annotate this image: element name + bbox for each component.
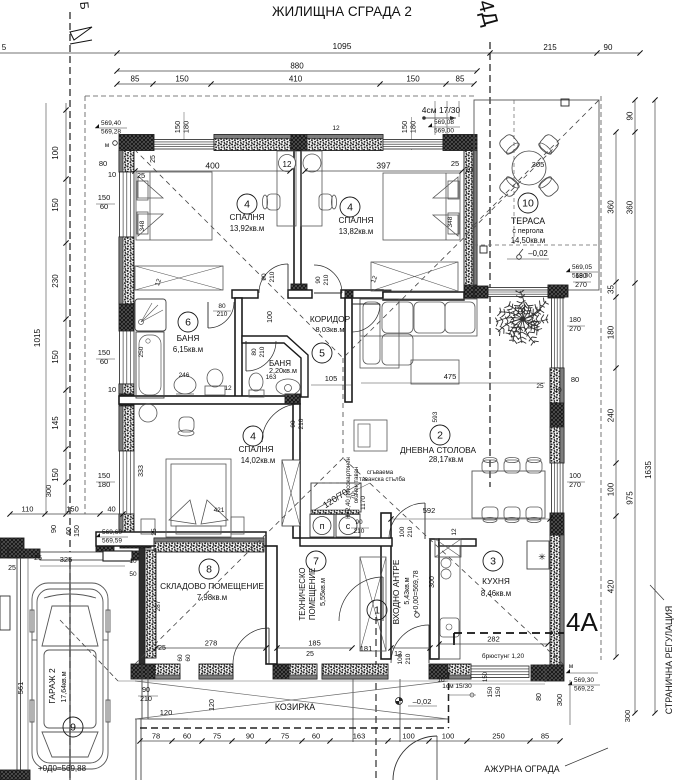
svg-text:150: 150 xyxy=(98,471,111,480)
window 180/270 right xyxy=(552,298,564,368)
corner jog SW b xyxy=(120,532,151,548)
dim 1095 line xyxy=(0,52,640,54)
room number 2 xyxy=(430,425,450,445)
svg-text:4А: 4А xyxy=(566,607,598,637)
bottom wall xyxy=(289,664,317,679)
block S of bedroom wall xyxy=(291,284,307,297)
svg-text:2,20кв.м: 2,20кв.м xyxy=(269,366,297,375)
svg-text:м: м xyxy=(569,663,574,670)
column xyxy=(291,135,307,151)
svg-text:ГАРАЖ 2: ГАРАЖ 2 xyxy=(47,668,57,704)
svg-text:270: 270 xyxy=(575,282,587,289)
svg-text:150: 150 xyxy=(51,468,60,482)
svg-text:210: 210 xyxy=(259,346,266,357)
svg-text:110: 110 xyxy=(22,505,34,514)
bed bedroom1 xyxy=(136,172,212,240)
wardrobe X bedroom3 wall xyxy=(282,460,300,526)
regulation line 4Д dashed xyxy=(489,42,491,487)
door tech xyxy=(382,577,384,621)
svg-text:25: 25 xyxy=(306,651,314,658)
canopy left edge xyxy=(135,719,137,780)
corridor W wall xyxy=(345,298,352,402)
door bath6 xyxy=(207,302,209,328)
svg-text:10: 10 xyxy=(522,198,534,210)
canopy right xyxy=(544,664,546,682)
room number 8 xyxy=(199,559,219,579)
desks bedrooms xyxy=(277,151,296,226)
tech appliances п с xyxy=(310,514,334,537)
svg-text:КОЗИРКА: КОЗИРКА xyxy=(275,702,315,712)
svg-text:3: 3 xyxy=(490,556,496,568)
svg-text:80: 80 xyxy=(99,159,107,168)
svg-text:ТЕРАСА: ТЕРАСА xyxy=(511,216,545,226)
svg-text:180: 180 xyxy=(575,273,587,280)
svg-text:25: 25 xyxy=(150,155,157,163)
wall anchor marker xyxy=(480,246,487,253)
door bedroom1 xyxy=(287,264,289,293)
dim line xyxy=(634,100,636,713)
svg-text:сгъваема: сгъваема xyxy=(367,470,394,476)
top wall xyxy=(214,135,291,151)
svg-text:246: 246 xyxy=(179,372,190,379)
svg-text:100: 100 xyxy=(442,732,455,741)
garage door band xyxy=(40,552,103,560)
svg-text:210: 210 xyxy=(354,528,365,535)
window 150/60 left xyxy=(120,172,135,237)
svg-text:75: 75 xyxy=(281,732,289,741)
roof hip SW xyxy=(135,458,343,664)
svg-text:ВХОДНО АНТРЕ: ВХОДНО АНТРЕ xyxy=(391,559,401,624)
svg-text:287: 287 xyxy=(155,600,162,611)
svg-text:90: 90 xyxy=(142,687,150,694)
svg-text:4: 4 xyxy=(347,202,353,214)
canopy X2 xyxy=(135,681,448,719)
svg-text:СПАЛНЯ: СПАЛНЯ xyxy=(338,215,373,225)
block xyxy=(464,285,477,298)
blk xyxy=(345,290,353,298)
bottom wall xyxy=(155,664,180,679)
window bedroom2 N xyxy=(383,140,443,150)
door bedroom3 xyxy=(299,404,301,442)
svg-text:10: 10 xyxy=(108,170,116,179)
left wall pier xyxy=(119,384,134,394)
svg-text:150: 150 xyxy=(487,686,494,697)
pergola post xyxy=(561,99,569,106)
svg-text:325: 325 xyxy=(60,555,73,564)
storage N wall xyxy=(96,532,266,546)
svg-text:10: 10 xyxy=(554,387,562,394)
left wall xyxy=(119,406,134,451)
door corridor-living xyxy=(352,303,380,305)
svg-text:60: 60 xyxy=(177,654,184,662)
svg-text:100: 100 xyxy=(607,482,616,496)
svg-text:14,02кв.м: 14,02кв.м xyxy=(241,456,276,465)
svg-text:35: 35 xyxy=(607,285,616,294)
corner SE xyxy=(531,665,564,681)
svg-text:80: 80 xyxy=(218,303,226,310)
dim line xyxy=(615,132,617,657)
bottom block xyxy=(273,664,289,679)
window 100/270 right xyxy=(552,463,564,513)
chair bedroom3 xyxy=(178,417,194,436)
dim line xyxy=(10,513,123,515)
svg-text:брюстунг 1,20: брюстунг 1,20 xyxy=(482,652,525,660)
svg-text:10: 10 xyxy=(437,677,445,684)
toilet bath6 xyxy=(205,369,225,395)
svg-text:400: 400 xyxy=(205,161,219,171)
svg-text:150: 150 xyxy=(66,505,79,514)
svg-text:–0,02: –0,02 xyxy=(528,249,548,258)
svg-text:569,59: 569,59 xyxy=(102,538,122,545)
entr-tech N wall xyxy=(300,538,392,546)
kitchen counter xyxy=(439,546,460,659)
svg-text:270: 270 xyxy=(569,482,581,489)
svg-text:БАНЯ: БАНЯ xyxy=(177,333,200,343)
blk corridor SW xyxy=(285,394,300,404)
room number 7 xyxy=(306,551,326,571)
svg-text:1170: 1170 xyxy=(360,496,367,510)
right wall xyxy=(550,535,564,665)
svg-text:90: 90 xyxy=(626,111,635,120)
svg-text:100: 100 xyxy=(402,732,415,741)
dim line xyxy=(117,70,477,72)
front door xyxy=(428,625,430,663)
dining chairs xyxy=(482,457,498,473)
wall bedrooms 1|2 xyxy=(294,151,301,285)
svg-text:80: 80 xyxy=(571,375,579,384)
room number 4 xyxy=(237,194,257,214)
svg-text:25: 25 xyxy=(536,383,544,390)
svg-text:100: 100 xyxy=(399,526,406,537)
room number 1 xyxy=(367,600,387,620)
svg-text:150: 150 xyxy=(74,525,81,537)
svg-text:6,15кв.м: 6,15кв.м xyxy=(173,345,203,354)
terrace chairs xyxy=(498,133,521,156)
svg-text:150: 150 xyxy=(483,671,489,682)
svg-text:120: 120 xyxy=(160,708,173,717)
svg-text:7,98кв.м: 7,98кв.м xyxy=(197,593,227,602)
room number 5 xyxy=(312,343,332,363)
svg-text:8,46кв.м: 8,46кв.м xyxy=(481,589,511,598)
bottom wall xyxy=(199,664,233,679)
canopy edge right xyxy=(448,683,545,685)
coffee table xyxy=(411,360,459,384)
svg-text:85: 85 xyxy=(456,75,465,84)
roof hip NE xyxy=(343,143,559,358)
svg-text:с: с xyxy=(346,521,351,531)
survey point xyxy=(396,698,403,705)
svg-text:ТЕХНИЧЕСКО: ТЕХНИЧЕСКО xyxy=(298,568,307,621)
svg-text:569,40: 569,40 xyxy=(101,120,121,127)
roof overhang left xyxy=(84,96,86,514)
svg-text:8,03кв.м: 8,03кв.м xyxy=(315,325,344,334)
svg-text:1635: 1635 xyxy=(644,461,653,479)
roof ridge xyxy=(342,358,344,458)
dining table xyxy=(472,471,545,518)
corner NE living xyxy=(548,285,564,298)
canopy ridge xyxy=(118,680,545,682)
svg-text:150: 150 xyxy=(98,193,111,202)
svg-text:180: 180 xyxy=(409,121,418,134)
svg-text:90: 90 xyxy=(49,525,58,533)
dim 1635 xyxy=(654,100,656,713)
car top view xyxy=(30,583,110,769)
svg-text:СПАЛНЯ: СПАЛНЯ xyxy=(238,444,273,454)
svg-text:90: 90 xyxy=(315,276,322,284)
corridor N wall a xyxy=(232,290,258,298)
svg-text:282: 282 xyxy=(487,635,500,644)
svg-text:120: 120 xyxy=(209,699,216,711)
right wall xyxy=(550,368,564,403)
svg-text:+0Д0=569,88: +0Д0=569,88 xyxy=(38,764,87,773)
post2 xyxy=(474,286,488,298)
terrace dashed h xyxy=(474,244,599,246)
right wall xyxy=(550,427,564,463)
corridor N wall c xyxy=(341,290,383,298)
canopy X1 xyxy=(135,681,448,719)
svg-text:60: 60 xyxy=(66,527,73,535)
counter strip above appliances xyxy=(311,510,359,515)
svg-text:80: 80 xyxy=(251,348,258,356)
svg-text:25: 25 xyxy=(34,555,42,562)
dim line xyxy=(135,170,290,172)
bottom wall xyxy=(322,664,388,679)
chairs at desks xyxy=(262,194,280,210)
svg-text:ПОМЕЩЕНИЕ: ПОМЕЩЕНИЕ xyxy=(308,568,317,620)
svg-text:163: 163 xyxy=(353,732,366,741)
room number 4 xyxy=(340,197,360,217)
right wall terrace side xyxy=(464,151,477,286)
wardrobe bedroom1 xyxy=(135,266,223,290)
garage lintel xyxy=(103,551,132,561)
svg-text:80: 80 xyxy=(536,693,543,701)
plot corner dashed h xyxy=(140,727,449,729)
svg-text:300: 300 xyxy=(429,576,436,588)
svg-text:410: 410 xyxy=(289,75,303,84)
window 150/180 left xyxy=(120,451,135,514)
svg-text:561: 561 xyxy=(16,682,25,695)
bath2 walls with chamfer xyxy=(242,336,308,397)
svg-text:150: 150 xyxy=(98,348,111,357)
blk xyxy=(383,290,391,298)
post3 xyxy=(548,285,568,297)
dim line xyxy=(439,643,548,645)
svg-text:13,82кв.м: 13,82кв.м xyxy=(339,227,374,236)
dressing mirror bedroom3 xyxy=(139,404,157,422)
svg-text:300: 300 xyxy=(555,694,564,707)
svg-text:181: 181 xyxy=(360,644,373,653)
svg-text:10: 10 xyxy=(465,167,473,174)
bath6 E wall xyxy=(235,298,242,402)
svg-text:12: 12 xyxy=(224,385,232,392)
svg-text:КУХНЯ: КУХНЯ xyxy=(482,576,510,586)
svg-text:250: 250 xyxy=(138,346,145,357)
block xyxy=(119,304,134,331)
shower bath6 xyxy=(135,299,166,331)
svg-text:–0,02: –0,02 xyxy=(413,697,432,706)
window bedroom1 N xyxy=(154,140,214,150)
svg-text:150: 150 xyxy=(51,198,60,212)
svg-text:250: 250 xyxy=(492,732,505,741)
svg-text:10: 10 xyxy=(108,385,116,394)
block xyxy=(119,394,134,406)
plot corner dashed v xyxy=(448,672,450,728)
gate arc xyxy=(393,736,437,780)
svg-text:150: 150 xyxy=(51,350,60,364)
svg-text:300: 300 xyxy=(623,710,632,723)
svg-text:215: 215 xyxy=(543,43,557,52)
room number 10 xyxy=(518,193,538,213)
svg-text:85: 85 xyxy=(131,75,140,84)
svg-text:300: 300 xyxy=(44,485,53,498)
svg-text:10: 10 xyxy=(129,558,137,565)
svg-text:7: 7 xyxy=(313,556,319,568)
property line Б dashed xyxy=(69,12,71,780)
svg-text:4: 4 xyxy=(250,431,256,443)
svg-text:1: 1 xyxy=(374,605,380,617)
roof hip NW xyxy=(128,143,343,358)
svg-text:360: 360 xyxy=(607,200,616,214)
roof hip SE xyxy=(343,458,564,665)
svg-text:м: м xyxy=(105,142,110,149)
terrace sliding door xyxy=(477,288,548,297)
svg-text:28,17кв.м: 28,17кв.м xyxy=(429,455,464,464)
storage E wall xyxy=(266,546,277,664)
sink bath2 xyxy=(276,379,300,395)
svg-text:569,30: 569,30 xyxy=(574,677,594,684)
svg-text:569,00: 569,00 xyxy=(434,128,454,135)
stove burners xyxy=(441,558,451,568)
svg-text:25: 25 xyxy=(451,159,459,168)
svg-text:397: 397 xyxy=(376,161,390,171)
entrance closet X xyxy=(360,557,386,651)
bed bedroom3 xyxy=(141,459,244,537)
garage E wall speckle xyxy=(145,550,156,658)
svg-text:90: 90 xyxy=(355,519,363,526)
svg-text:5,55кв.м: 5,55кв.м xyxy=(318,578,327,606)
svg-text:25: 25 xyxy=(8,565,16,572)
svg-text:60: 60 xyxy=(183,732,191,741)
svg-text:АЖУРНА ОГРАДА: АЖУРНА ОГРАДА xyxy=(484,764,559,774)
sofa living xyxy=(360,299,477,368)
svg-text:475: 475 xyxy=(444,372,457,381)
room number 4 xyxy=(243,426,263,446)
svg-text:85: 85 xyxy=(541,732,549,741)
svg-text:150: 150 xyxy=(495,686,502,697)
toilet bath2 xyxy=(249,373,264,397)
svg-text:210: 210 xyxy=(217,311,228,318)
bedroom2 S wall xyxy=(383,292,464,300)
svg-text:278: 278 xyxy=(205,639,218,648)
svg-text:569,60: 569,60 xyxy=(102,529,122,536)
svg-text:25: 25 xyxy=(158,645,166,652)
garage E wall dark xyxy=(139,548,145,664)
svg-text:1015: 1015 xyxy=(33,328,42,347)
svg-text:+0,00=569,78: +0,00=569,78 xyxy=(413,570,420,613)
svg-text:17,64кв.м: 17,64кв.м xyxy=(61,671,68,702)
kitchen N wall seg xyxy=(439,539,476,546)
svg-text:КОРИДОР: КОРИДОР xyxy=(310,314,351,324)
svg-text:180: 180 xyxy=(182,121,191,134)
neighbor block SW xyxy=(0,770,30,780)
svg-text:60: 60 xyxy=(185,654,192,662)
attic hatch xyxy=(311,483,361,512)
garage wall W block xyxy=(0,538,24,558)
svg-text:348: 348 xyxy=(447,216,454,227)
svg-text:421: 421 xyxy=(214,507,225,514)
svg-text:50: 50 xyxy=(129,571,137,578)
svg-text:9: 9 xyxy=(70,722,76,734)
svg-text:12: 12 xyxy=(332,125,340,132)
door bedroom2 xyxy=(314,292,342,294)
svg-text:ДНЕВНА СТОЛОВА: ДНЕВНА СТОЛОВА xyxy=(400,445,476,455)
svg-text:75: 75 xyxy=(213,732,221,741)
svg-text:13,92кв.м: 13,92кв.м xyxy=(230,224,265,233)
walkway axis dashed xyxy=(375,617,377,780)
dim line xyxy=(277,647,352,649)
door storage xyxy=(268,628,270,664)
svg-text:✳: ✳ xyxy=(538,552,546,562)
svg-text:185: 185 xyxy=(308,639,321,648)
svg-text:25: 25 xyxy=(137,171,145,180)
storage N wall fill xyxy=(154,538,264,552)
svg-text:с пергола: с пергола xyxy=(512,228,543,235)
svg-text:60: 60 xyxy=(100,357,108,366)
bottom block xyxy=(131,664,155,679)
corner block NW xyxy=(119,135,154,151)
garage left wall xyxy=(16,558,18,780)
neighbor wall piece xyxy=(0,596,10,630)
garage axis dashed xyxy=(69,558,71,780)
svg-text:1см 15/30: 1см 15/30 xyxy=(442,683,472,690)
bath S wall xyxy=(119,396,300,404)
svg-text:210: 210 xyxy=(140,696,152,703)
svg-text:окачен таван: окачен таван xyxy=(354,467,360,504)
svg-text:Б: Б xyxy=(77,1,92,10)
svg-text:2: 2 xyxy=(437,430,443,442)
svg-text:569,22: 569,22 xyxy=(574,686,594,693)
terrace dashed v xyxy=(513,100,515,245)
bedroom3 E wall xyxy=(293,404,300,538)
kitchen sink xyxy=(440,618,459,637)
window 150/60 bath xyxy=(120,331,135,384)
svg-text:592: 592 xyxy=(423,506,436,515)
svg-text:569,08: 569,08 xyxy=(434,119,454,126)
svg-text:СКЛАДОВО ПОМЕЩЕНИЕ: СКЛАДОВО ПОМЕЩЕНИЕ xyxy=(160,581,264,591)
svg-text:78: 78 xyxy=(152,732,160,741)
svg-text:210: 210 xyxy=(323,274,330,285)
kitchen window xyxy=(471,666,529,678)
dim line xyxy=(156,647,266,649)
svg-text:210: 210 xyxy=(298,418,305,429)
entrance walkway xyxy=(352,679,354,742)
svg-text:100: 100 xyxy=(569,473,581,480)
terrace hip xyxy=(474,100,599,225)
svg-text:210: 210 xyxy=(407,526,414,537)
bottom wall xyxy=(448,664,471,679)
svg-text:880: 880 xyxy=(290,62,304,71)
svg-text:60: 60 xyxy=(100,202,108,211)
corner block NE xyxy=(443,135,477,151)
svg-text:180: 180 xyxy=(569,317,581,324)
sink bath6 xyxy=(174,376,196,394)
svg-text:40: 40 xyxy=(107,505,115,514)
svg-text:360: 360 xyxy=(626,200,635,214)
svg-text:150: 150 xyxy=(175,75,189,84)
svg-text:60: 60 xyxy=(312,732,320,741)
svg-text:569,05: 569,05 xyxy=(572,264,592,271)
svg-text:90: 90 xyxy=(246,732,254,741)
